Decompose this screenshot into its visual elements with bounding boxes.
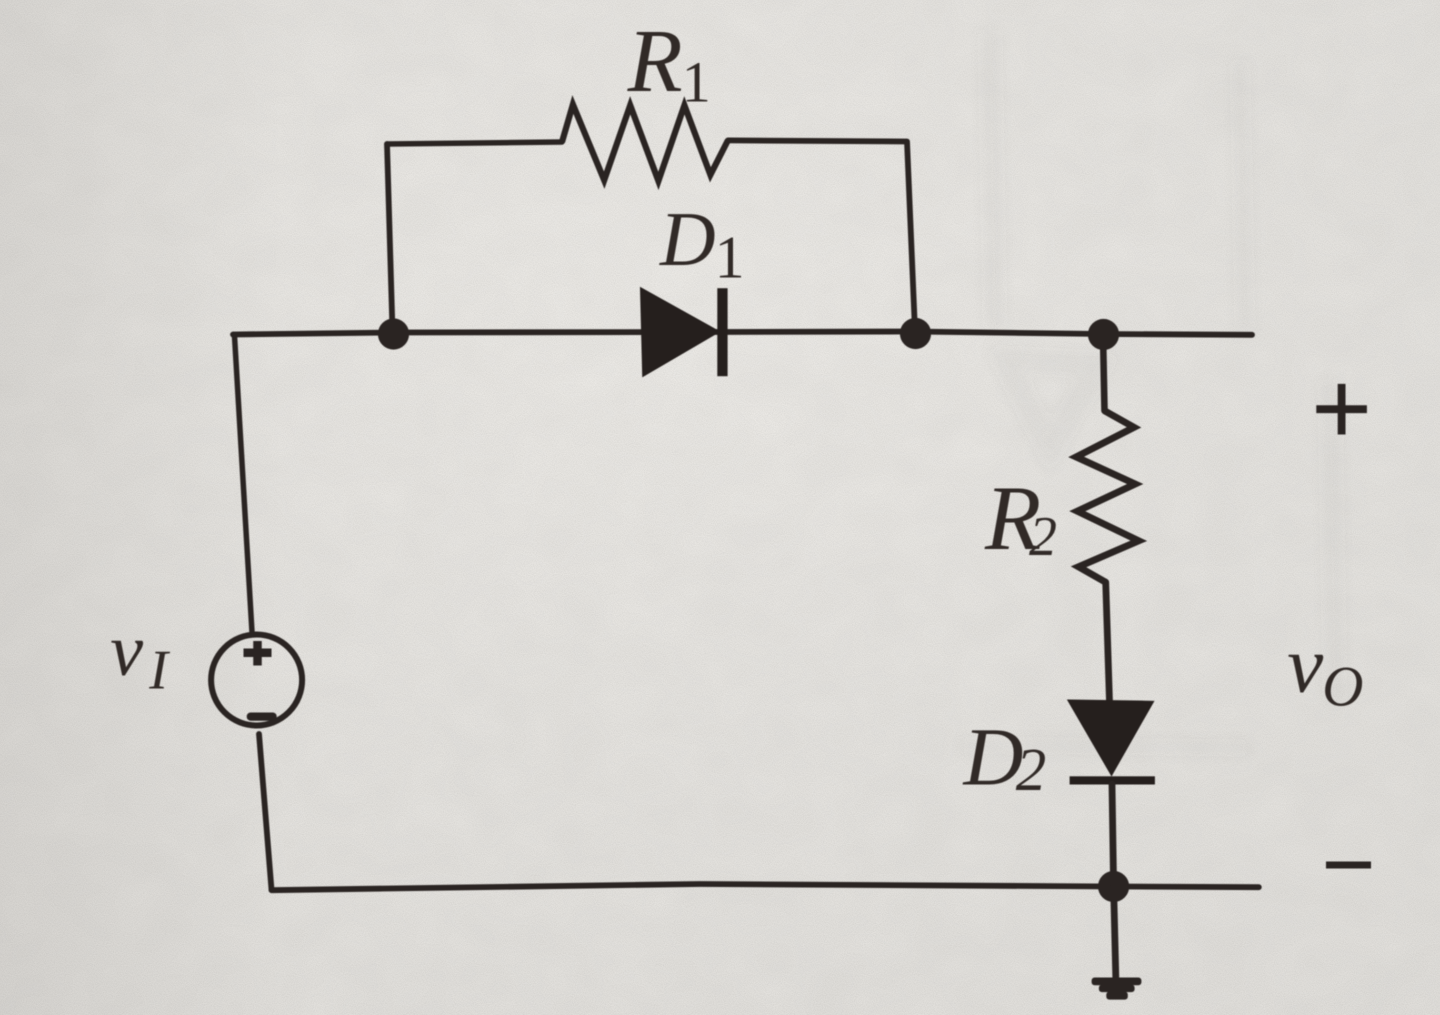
- label R2: [984, 467, 1057, 569]
- node: junction dot right of D1: [900, 318, 931, 349]
- svg-text:v: v: [110, 610, 143, 692]
- svg-text:O: O: [1322, 656, 1363, 719]
- wire: R1 loop left vertical: [387, 144, 393, 331]
- node: junction dot at R2 top: [1088, 319, 1119, 350]
- wire: source top lead (corner down to source circle): [234, 335, 253, 633]
- wire: R2 bottom lead to D2: [1106, 582, 1110, 702]
- wire: D2 cathode lead down to bottom node: [1112, 784, 1114, 886]
- wire: bottom horizontal from source to ground node and minus terminal: [272, 884, 1259, 890]
- svg-text:D: D: [659, 196, 716, 282]
- wire: source bottom lead down to bottom-left corner: [259, 734, 272, 890]
- svg-text:1: 1: [715, 225, 745, 291]
- resistor R1: [562, 105, 728, 181]
- wire: R2 top lead: [1103, 334, 1105, 411]
- svg-text:1: 1: [682, 50, 711, 115]
- wire: main top horizontal from source corner to output +: [233, 332, 1252, 335]
- label D1: [659, 196, 745, 291]
- svg-text:2: 2: [1029, 506, 1057, 568]
- output terminal plus: [1316, 384, 1367, 435]
- resistor R2: [1076, 411, 1139, 583]
- wire: ground lead: [1114, 886, 1116, 977]
- svg-text:I: I: [148, 639, 170, 701]
- diode D1: [641, 288, 728, 376]
- label D2: [963, 711, 1047, 805]
- voltage source vI: [211, 635, 302, 726]
- ground: [1092, 978, 1142, 1000]
- wire: R1 left lead: [387, 142, 562, 144]
- wire: R1 loop right vertical: [907, 142, 915, 332]
- wire: R1 right lead: [728, 140, 906, 141]
- svg-text:2: 2: [1016, 737, 1047, 804]
- diode D2: [1069, 701, 1155, 785]
- svg-text:R: R: [627, 12, 683, 111]
- label R1: [627, 12, 711, 115]
- label vO: [1287, 620, 1363, 719]
- svg-text:D: D: [963, 711, 1024, 803]
- node: junction dot at bottom (D2/ground): [1098, 871, 1129, 902]
- node: junction dot left (source/R1/D1): [378, 318, 409, 349]
- output terminal minus: [1326, 862, 1371, 869]
- label vI: [110, 610, 170, 701]
- svg-text:v: v: [1287, 620, 1323, 710]
